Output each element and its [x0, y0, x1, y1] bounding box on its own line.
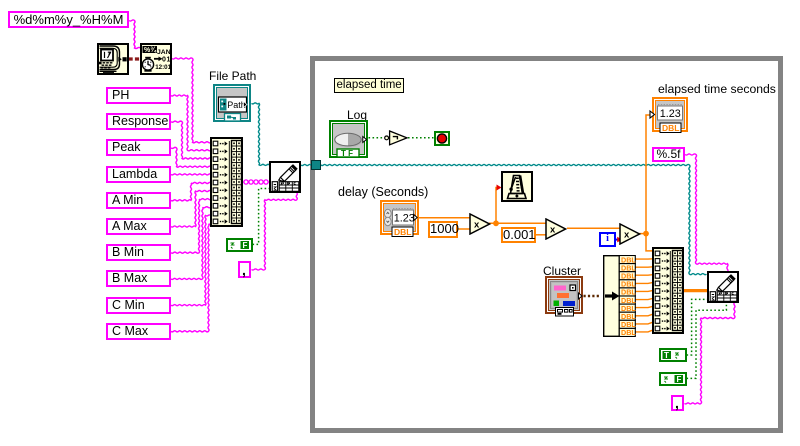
constant: False boolean (left) [226, 238, 253, 252]
function: Format Date/Time String [140, 43, 172, 75]
wire: A Min string to Build Array input 6 [171, 182, 211, 200]
wire: Unbundle DBL output 1 to Build Array 2 input 2 [635, 258, 653, 260]
control: C Max string [106, 323, 171, 340]
wire: Multiply 2 output to Multiply 3 top input [567, 227, 620, 229]
label "File Path" [209, 69, 256, 83]
wire: %.5f format string to Write node 2 format input [685, 154, 728, 272]
wire: Cluster to Unbundle (brown dotted) [584, 295, 602, 298]
wire: 1D string array Build Array to Write To Spreadsheet File (bead chain) [243, 181, 270, 183]
svg-text:Path: Path [227, 100, 246, 110]
while loop border [310, 56, 783, 433]
constant: comma delimiter (left) [238, 261, 251, 278]
control: A Max string [106, 218, 171, 235]
function: Build Array (headers) [210, 137, 243, 227]
control: Peak string [106, 139, 171, 156]
function: Write To Spreadsheet File (data) [707, 271, 739, 303]
function: Unbundle [603, 255, 636, 337]
constant: True boolean [659, 348, 687, 362]
function: Multiply 2 [545, 218, 567, 240]
wire: Unbundle DBL output 2 to Build Array 2 input 3 [635, 266, 653, 268]
control: File Path [213, 84, 251, 122]
control: Log (boolean switch) [329, 120, 368, 158]
wire: Unbundle DBL output 5 to Build Array 2 input 6 [635, 290, 653, 293]
svg-text:JAN: JAN [157, 49, 171, 56]
svg-text:x: x [624, 229, 630, 240]
wire: Lambda string to Build Array input 5 [171, 174, 211, 175]
function: Multiply 1 [469, 213, 491, 235]
wire: B Max string to Build Array input 9 [171, 207, 211, 280]
svg-text:DBL: DBL [662, 123, 679, 133]
wire: False constant to Write node 1 append input (green dotted) [253, 189, 270, 245]
svg-text:DBL: DBL [394, 227, 411, 237]
wire: iteration terminal to Multiply 3 bottom input (blue) [616, 239, 620, 241]
wire: comma delimiter constant to Write node 1 bottom input [252, 193, 298, 270]
constant: False boolean (loop) [659, 372, 687, 386]
wire: 1D DBL array Build Array 2 to Write node 2 (thick orange) [684, 289, 708, 292]
control: A Min string [106, 192, 171, 209]
function: Get Date/Time In Seconds [97, 43, 129, 75]
control: B Max string [106, 270, 171, 287]
wire: Unbundle DBL output 4 to Build Array 2 input 5 [635, 282, 653, 285]
function: Write To Spreadsheet File (headers) [269, 161, 301, 193]
wire: Log boolean to Not gate (green dotted) [369, 137, 386, 139]
wire: Unbundle DBL output 6 to Build Array 2 input 7 [635, 299, 653, 300]
svg-text:T: T [664, 351, 669, 360]
wire: Unbundle DBL output 8 to Build Array 2 input 9 [635, 314, 653, 316]
wire: formatted date string to Build Array input 1 [172, 58, 211, 143]
wire: Multiply 1 output to junction and Multiply 2 [489, 222, 546, 224]
wire: Unbundle DBL output 9 to Build Array 2 input 10 [635, 322, 653, 324]
junction: elapsed seconds branch dot [643, 231, 649, 237]
wire: branch up to Wait (ms) function [496, 188, 498, 224]
function: Build Array 2 (data row) [652, 247, 684, 334]
control: Lambda string [106, 166, 171, 183]
control: delay (Seconds) numeric [380, 200, 419, 235]
wire: 1000 constant to Multiply 1 bottom input [458, 228, 470, 230]
terminal: loop condition (stop button) [434, 131, 450, 146]
wire: elapsed seconds up to indicator and down to Build Array 2 input 1 [646, 115, 653, 251]
wire: Unbundle DBL output 7 to Build Array 2 input 8 [635, 306, 653, 307]
constant: 0.001 [501, 227, 536, 243]
arrow: red input arrow at Wait (ms) [497, 185, 502, 191]
junction: multiply1 output branch dot [493, 220, 499, 226]
arrow: red input arrow at Multiply 3 bottom input [617, 237, 622, 243]
svg-text:x: x [474, 219, 480, 230]
wire: date format string constant to Format Date/Time String [129, 20, 141, 49]
label "delay (Seconds)" [338, 185, 428, 199]
svg-text:F: F [677, 375, 682, 384]
free label "elapsed time" [334, 78, 404, 93]
svg-text:DBL: DBL [621, 328, 636, 337]
label "elapsed time seconds" [658, 82, 776, 96]
wire: file path out of Write node 1 through tunnel into loop [301, 164, 706, 274]
wire: C Max string to Build Array input 11 [171, 224, 211, 332]
function: Multiply 3 [619, 223, 641, 245]
control: Cluster [545, 276, 583, 314]
control: C Min string [106, 297, 171, 314]
wire: Not gate to loop stop condition terminal (green dotted) [408, 137, 434, 139]
wire: B Min string to Build Array input 8 [171, 199, 211, 254]
svg-text:12:01: 12:01 [155, 64, 171, 71]
wire: C Min string to Build Array input 10 [171, 215, 211, 306]
control: B Min string [106, 244, 171, 261]
wire: True constant to Write node 2 (green dotted) [687, 299, 708, 355]
wire: Unbundle DBL output 3 to Build Array 2 input 4 [635, 274, 653, 277]
wire: Multiply 3 output to junction [639, 233, 646, 235]
indicator: elapsed time seconds numeric [652, 97, 688, 132]
svg-text:01: 01 [162, 57, 171, 64]
wire: delay control to Multiply 1 top input [419, 217, 470, 219]
svg-text:F: F [243, 241, 248, 250]
constant: comma delimiter (loop) [671, 395, 684, 411]
wire: Unbundle DBL output 10 to Build Array 2 input 11 [635, 330, 653, 332]
function: Wait (ms) metronome [501, 171, 533, 202]
wire: time stamp Get Date/Time to Format (dark red dashed) [129, 57, 141, 60]
svg-text:1.23: 1.23 [660, 108, 681, 120]
wire: A Max string to Build Array input 7 [171, 191, 211, 228]
terminal: iteration i [599, 232, 616, 247]
function: Not gate [383, 128, 411, 148]
svg-text:%¾: %¾ [144, 46, 157, 54]
wire: False constant 2 to Write node 2 bottom (green dotted) [687, 303, 727, 379]
wire: Response string to Build Array input 3 [171, 121, 211, 159]
label "Cluster" [543, 264, 581, 278]
constant: 1000 [428, 221, 458, 238]
wire: File Path control to Write To Spreadsheet File [252, 103, 270, 166]
control: Response string [106, 113, 171, 130]
string constant "%d%m%y_%H%M" [8, 11, 129, 28]
wire: Peak string to Build Array input 4 [171, 147, 211, 167]
control: PH string [106, 87, 171, 104]
label "Log" [347, 108, 367, 122]
svg-text:x: x [550, 224, 556, 235]
wire: comma delimiter 2 to Write node 2 bottom input [685, 303, 735, 404]
svg-text:1.23: 1.23 [394, 213, 415, 225]
constant: "%.5f" format string [652, 147, 685, 162]
wire: 0.001 constant to Multiply 2 bottom input [536, 234, 546, 236]
tunnel: file path tunnel on loop border [311, 160, 321, 170]
svg-text:T F: T F [341, 149, 353, 158]
wire: PH string to Build Array input 2 [171, 95, 211, 151]
